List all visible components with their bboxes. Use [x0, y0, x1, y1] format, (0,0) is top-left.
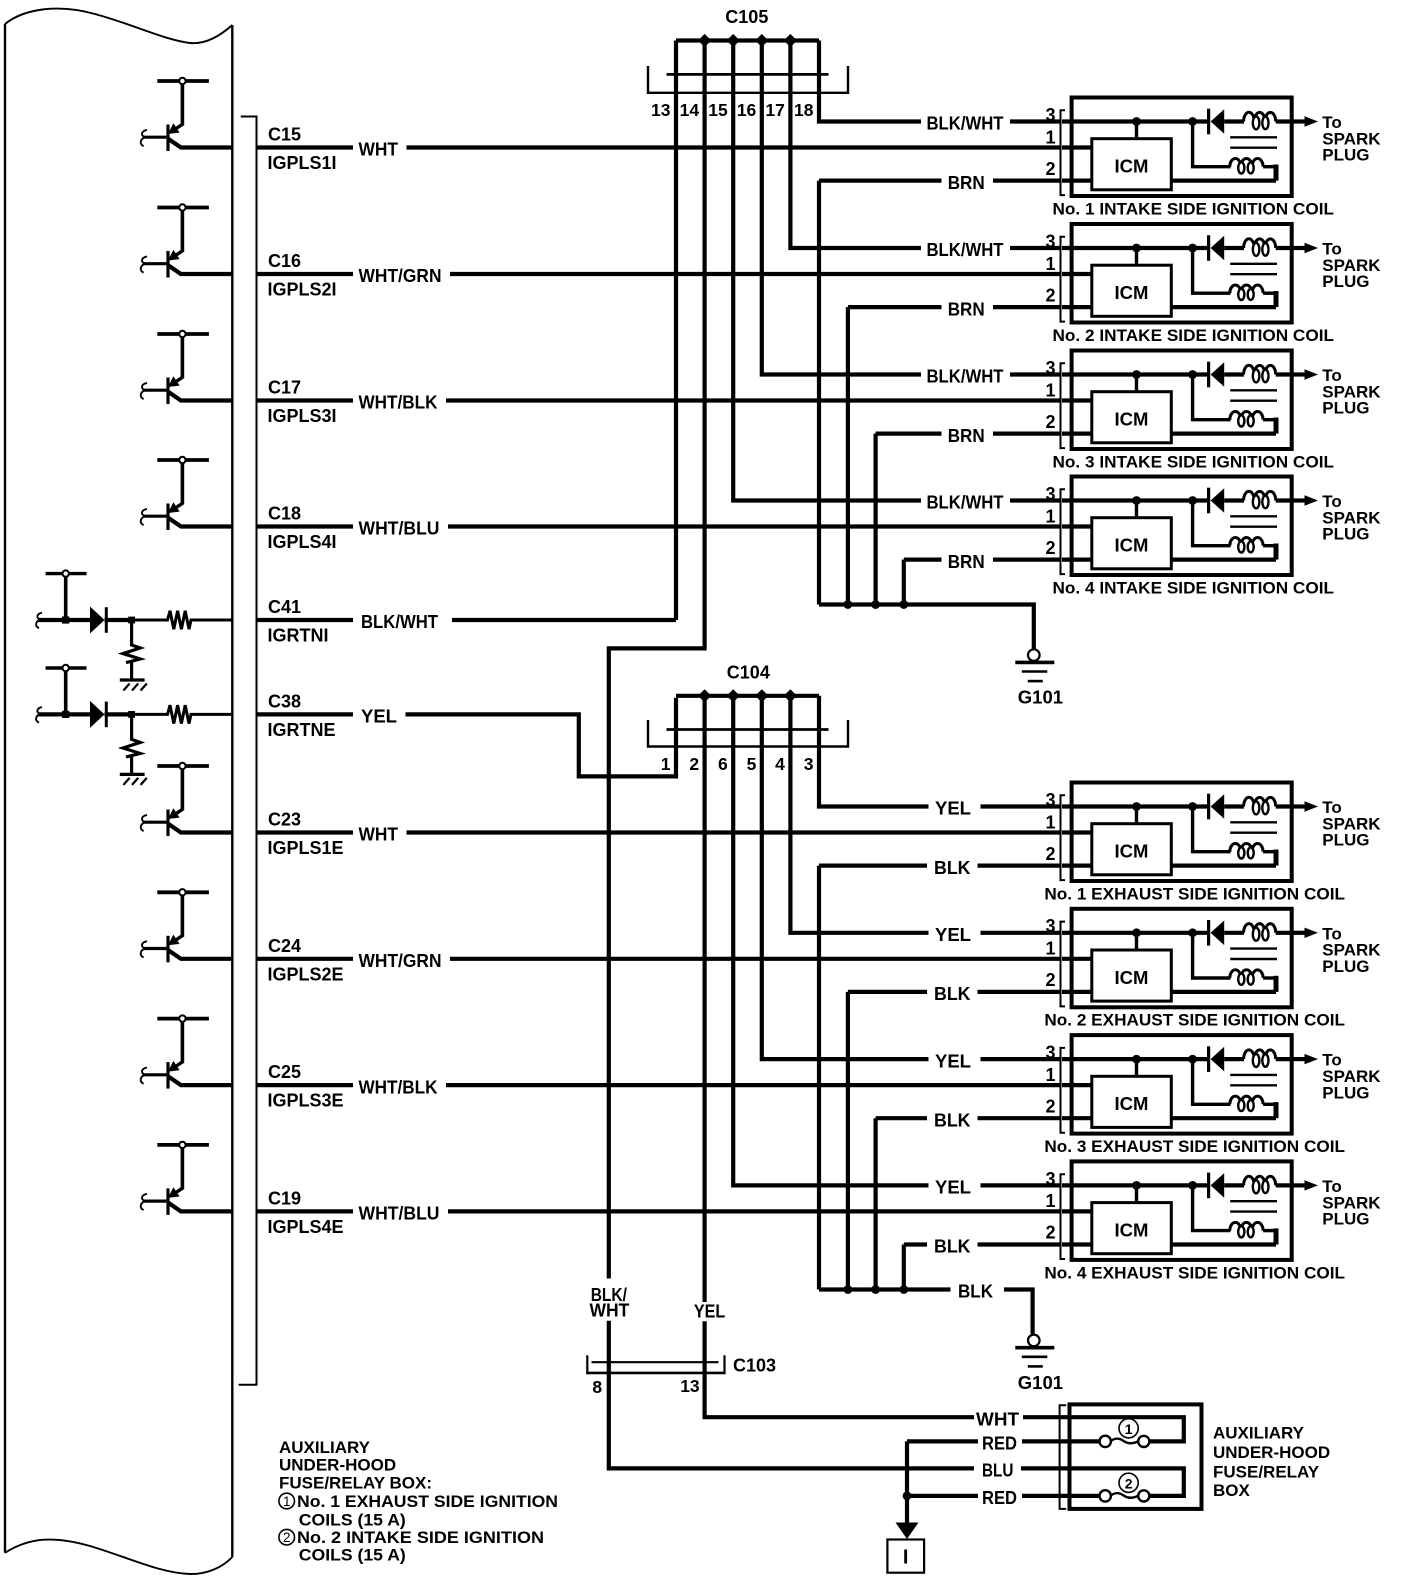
svg-text:ICM: ICM: [1115, 841, 1149, 862]
ignition coil block U7 (No. 3 EXHAUST side): [1061, 1035, 1319, 1134]
diode-resistor return network D1/R1/R2 (IGRTNI): [36, 570, 232, 690]
ECM connector face bracket: [239, 117, 257, 1385]
wire BLK No.3 exhaust coil pin 2: [876, 1116, 927, 1120]
svg-text:4: 4: [775, 754, 785, 774]
wire BLK No.1 exhaust coil pin 2: [819, 863, 927, 867]
wire C19 WHT/BLU segment from ECM: [258, 1209, 354, 1213]
svg-text:YEL: YEL: [935, 1051, 971, 1071]
svg-text:BLU: BLU: [982, 1461, 1013, 1481]
svg-text:WHT/BLK: WHT/BLK: [359, 393, 438, 413]
svg-text:5: 5: [747, 754, 757, 774]
wire C25 WHT/BLK run to No.3 exhaust coil pin 1: [446, 1083, 1061, 1087]
label To SPARK PLUG of U5: [1322, 798, 1381, 850]
svg-text:PLUG: PLUG: [1322, 272, 1369, 291]
svg-text:IGPLS1I: IGPLS1I: [268, 153, 337, 173]
svg-text:No. 1 EXHAUST SIDE IGNITION CO: No. 1 EXHAUST SIDE IGNITION COIL: [1044, 884, 1345, 903]
svg-text:No. 1 INTAKE SIDE IGNITION COI: No. 1 INTAKE SIDE IGNITION COIL: [1053, 199, 1335, 218]
svg-text:C104: C104: [727, 662, 770, 682]
wire C104 pin 4 to No.2 exhaust coil pin 3 (YEL): [790, 696, 928, 933]
svg-text:AUXILIARY: AUXILIARY: [1213, 1423, 1305, 1442]
svg-text:PLUG: PLUG: [1322, 957, 1369, 976]
svg-text:PLUG: PLUG: [1322, 831, 1369, 850]
wire C105 pin 16 to No.3 intake coil pin 3 (BLK/WHT): [762, 41, 921, 375]
svg-text:C19: C19: [268, 1189, 301, 1209]
pin numbers 3/1/2 of U3: [1045, 358, 1055, 432]
svg-text:IGPLS2E: IGPLS2E: [268, 964, 344, 984]
svg-text:8: 8: [592, 1377, 602, 1397]
svg-text:IGPLS3I: IGPLS3I: [268, 406, 337, 426]
svg-text:1: 1: [1045, 380, 1055, 400]
svg-text:C24: C24: [268, 936, 301, 956]
wire BRN No.4 intake coil pin 2: [904, 557, 942, 561]
svg-text:16: 16: [737, 100, 757, 120]
svg-text:2: 2: [1045, 285, 1055, 305]
svg-text:3: 3: [1045, 231, 1055, 251]
wire C15 WHT run to No.1 intake coil pin 1: [407, 145, 1061, 149]
junction dots on intake ground bus: [844, 600, 853, 609]
svg-text:WHT/BLU: WHT/BLU: [359, 519, 440, 539]
svg-text:3: 3: [1045, 484, 1055, 504]
svg-text:ICM: ICM: [1115, 156, 1149, 177]
svg-text:3: 3: [804, 754, 814, 774]
svg-text:C41: C41: [268, 597, 301, 617]
ignition coil block U1 (No. 1 INTAKE side): [1061, 98, 1319, 197]
pin numbers 3/1/2 of U1: [1045, 105, 1055, 179]
svg-text:1: 1: [1045, 939, 1055, 959]
svg-text:2: 2: [1045, 1223, 1055, 1243]
wire C16 WHT/GRN run to No.2 intake coil pin 1: [450, 272, 1061, 276]
transistor Q7 (IGPLS3E driver) (ECM output driver): [141, 1015, 233, 1088]
legend AUXILIARY UNDER-HOOD FUSE/RELAY BOX key: [279, 1438, 432, 1493]
svg-text:COILS (15 A): COILS (15 A): [299, 1511, 406, 1530]
svg-text:BLK/WHT: BLK/WHT: [927, 493, 1004, 513]
svg-text:1: 1: [1045, 1065, 1055, 1085]
svg-text:No. 3 INTAKE SIDE IGNITION COI: No. 3 INTAKE SIDE IGNITION COIL: [1053, 452, 1335, 471]
svg-text:C15: C15: [268, 125, 301, 145]
svg-text:WHT/BLU: WHT/BLU: [359, 1204, 440, 1224]
svg-text:IGPLS2I: IGPLS2I: [268, 280, 337, 300]
svg-text:C23: C23: [268, 810, 301, 830]
svg-text:PLUG: PLUG: [1322, 1210, 1369, 1229]
transistor Q8 (IGPLS4E driver) (ECM output driver): [141, 1142, 233, 1215]
pin numbers 3/1/2 of U4: [1045, 484, 1055, 558]
ignition coil block U2 (No. 2 INTAKE side): [1061, 224, 1319, 323]
wire C104 pin 6 to No.4 exhaust coil pin 3 (YEL): [733, 696, 928, 1186]
ignition coil block U3 (No. 3 INTAKE side): [1061, 351, 1319, 450]
svg-text:ICM: ICM: [1115, 1219, 1149, 1240]
transistor Q1 (IGPLS1I driver) (ECM output driver): [141, 78, 233, 151]
transistor Q3 (IGPLS3I driver) (ECM output driver): [141, 331, 233, 404]
svg-text:1: 1: [1045, 506, 1055, 526]
wire C105 pin 18 to No.1 intake coil pin 3 (BLK/WHT): [819, 41, 921, 122]
wire C105 pin 14 down-left jog to BLK/WHT drop: [609, 41, 705, 1279]
wire BLK drop of No.1 exhaust coil: [817, 866, 821, 1290]
svg-text:BRN: BRN: [948, 299, 985, 319]
svg-text:G101: G101: [1018, 687, 1063, 708]
wire C105 pin 17 to No.2 intake coil pin 3 (BLK/WHT): [790, 41, 921, 249]
intake ground bus to G101: [819, 605, 1034, 649]
exhaust ground bus to G101: [819, 1287, 951, 1291]
arrow to connector I: [896, 1523, 919, 1540]
svg-text:BLK: BLK: [934, 1110, 971, 1130]
svg-text:BRN: BRN: [948, 552, 985, 572]
svg-text:2: 2: [1125, 1476, 1133, 1492]
wire C23 WHT run to No.1 exhaust coil pin 1: [407, 830, 1061, 834]
svg-text:No. 4 INTAKE SIDE IGNITION COI: No. 4 INTAKE SIDE IGNITION COIL: [1053, 578, 1335, 597]
wire C17 WHT/BLK segment from ECM: [258, 398, 354, 402]
svg-text:15: 15: [708, 100, 728, 120]
svg-text:PLUG: PLUG: [1322, 146, 1369, 165]
svg-text:BLK: BLK: [934, 984, 971, 1004]
wire RED fuse 2 output: [1022, 1494, 1060, 1498]
svg-text:WHT/BLK: WHT/BLK: [359, 1077, 438, 1097]
label To SPARK PLUG of U3: [1322, 366, 1381, 418]
svg-text:2: 2: [283, 1530, 291, 1545]
svg-text:FUSE/RELAY BOX:: FUSE/RELAY BOX:: [279, 1474, 432, 1493]
label To SPARK PLUG of U8: [1322, 1177, 1381, 1229]
junction dot RED wires: [903, 1492, 912, 1501]
svg-text:1: 1: [1045, 127, 1055, 147]
wire BLK No.4 exhaust coil pin 2: [904, 1242, 927, 1246]
svg-text:IGRTNE: IGRTNE: [268, 720, 336, 740]
svg-text:WHT: WHT: [590, 1301, 630, 1321]
wire BRN No.3 intake coil pin 2: [876, 432, 942, 436]
pin numbers of C105: [651, 100, 814, 120]
svg-text:No. 2 EXHAUST SIDE IGNITION CO: No. 2 EXHAUST SIDE IGNITION COIL: [1044, 1011, 1345, 1030]
pin numbers of C104: [661, 754, 814, 774]
ignition coil block U5 (No. 1 EXHAUST side): [1061, 783, 1319, 882]
svg-text:C105: C105: [725, 7, 768, 27]
svg-text:BLK: BLK: [934, 1237, 971, 1257]
svg-text:No. 2 INTAKE SIDE IGNITION COI: No. 2 INTAKE SIDE IGNITION COIL: [1053, 326, 1335, 345]
svg-text:YEL: YEL: [935, 1178, 971, 1198]
value label BLK/WHT on C105 pin14 drop: [590, 1285, 630, 1321]
svg-text:13: 13: [680, 1376, 700, 1396]
svg-text:BRN: BRN: [948, 173, 985, 193]
ground G101: [1015, 649, 1054, 681]
wire C104 pin 3 to No.1 exhaust coil pin 3 (YEL): [819, 696, 929, 807]
svg-text:BLK/WHT: BLK/WHT: [927, 367, 1004, 387]
wire C23 WHT segment from ECM: [258, 830, 354, 834]
label To SPARK PLUG of U1: [1322, 113, 1381, 165]
svg-text:YEL: YEL: [361, 707, 397, 727]
svg-text:14: 14: [680, 100, 700, 120]
svg-text:AUXILIARY: AUXILIARY: [279, 1438, 371, 1457]
label AUXILIARY UNDER-HOOD FUSE/RELAY BOX (right): [1213, 1423, 1330, 1500]
label To SPARK PLUG of U6: [1322, 924, 1381, 976]
ignition coil block U4 (No. 4 INTAKE side): [1061, 477, 1319, 576]
wire RED fuse 1 output: [1022, 1439, 1060, 1443]
svg-text:17: 17: [765, 100, 784, 120]
svg-text:PLUG: PLUG: [1322, 525, 1369, 544]
pin numbers 3/1/2 of U2: [1045, 231, 1055, 305]
connector C105: [648, 34, 848, 93]
transistor Q5 (IGPLS1E driver) (ECM output driver): [141, 763, 233, 836]
wire BLK/WHT drop below label to BLU row: [609, 1321, 974, 1469]
connector C103: [586, 1355, 725, 1374]
svg-text:18: 18: [794, 100, 814, 120]
svg-text:ICM: ICM: [1115, 409, 1149, 430]
svg-text:I: I: [903, 1547, 909, 1569]
svg-text:ICM: ICM: [1115, 282, 1149, 303]
svg-text:2: 2: [1045, 1096, 1055, 1116]
circled 2 fuse number: [1119, 1473, 1138, 1492]
wire C24 WHT/GRN segment from ECM: [258, 957, 354, 961]
svg-text:ICM: ICM: [1115, 967, 1149, 988]
svg-text:YEL: YEL: [935, 925, 971, 945]
svg-text:C16: C16: [268, 251, 301, 271]
svg-text:1: 1: [1045, 812, 1055, 832]
svg-text:2: 2: [689, 754, 699, 774]
svg-text:2: 2: [1045, 159, 1055, 179]
svg-text:1: 1: [283, 1494, 291, 1509]
svg-text:YEL: YEL: [694, 1302, 725, 1322]
svg-text:IGPLS1E: IGPLS1E: [268, 838, 344, 858]
wire C24 WHT/GRN run to No.2 exhaust coil pin 1: [450, 957, 1061, 961]
wire C19 WHT/BLU run to No.4 exhaust coil pin 1: [448, 1209, 1061, 1213]
connector C104: [648, 689, 848, 746]
svg-text:PLUG: PLUG: [1322, 1083, 1369, 1102]
ground G101: [1015, 1335, 1054, 1367]
auxiliary under-hood fuse/relay box: [1060, 1404, 1202, 1509]
circled 1 fuse number: [1119, 1419, 1138, 1438]
pin numbers 3/1/2 of U6: [1045, 916, 1055, 990]
wire C38 YEL segment from ECM: [258, 712, 354, 716]
svg-text:ICM: ICM: [1115, 535, 1149, 556]
svg-text:C25: C25: [268, 1062, 301, 1082]
wire C104 pin 5 to No.3 exhaust coil pin 3 (YEL): [762, 696, 929, 1059]
ignition coil block U6 (No. 2 EXHAUST side): [1061, 909, 1319, 1008]
svg-text:IGRTNI: IGRTNI: [268, 626, 329, 646]
svg-text:BRN: BRN: [948, 426, 985, 446]
svg-text:6: 6: [718, 754, 728, 774]
transistor Q2 (IGPLS2I driver) (ECM output driver): [141, 204, 233, 277]
svg-text:WHT: WHT: [359, 825, 399, 845]
svg-text:RED: RED: [982, 1488, 1017, 1508]
svg-text:No. 1 EXHAUST SIDE IGNITION: No. 1 EXHAUST SIDE IGNITION: [297, 1492, 558, 1511]
svg-text:COILS (15 A): COILS (15 A): [299, 1546, 406, 1565]
svg-text:2: 2: [1045, 970, 1055, 990]
pin numbers 3/1/2 of U5: [1045, 790, 1055, 864]
wire C16 WHT/GRN segment from ECM: [258, 272, 354, 276]
svg-text:3: 3: [1045, 105, 1055, 125]
ignition coil block U8 (No. 4 EXHAUST side): [1061, 1161, 1319, 1260]
fuse 1 element (15 A): [1060, 1417, 1184, 1447]
wire C15 WHT segment from ECM: [258, 145, 354, 149]
svg-text:WHT/GRN: WHT/GRN: [359, 951, 442, 971]
legend circled 2 entry: [279, 1528, 544, 1565]
svg-text:13: 13: [651, 100, 671, 120]
wire BRN No.2 intake coil pin 2: [848, 305, 942, 309]
transistor Q6 (IGPLS2E driver) (ECM output driver): [141, 889, 233, 962]
svg-text:C103: C103: [733, 1356, 776, 1376]
wire BLK No.2 exhaust coil pin 2: [848, 990, 927, 994]
svg-text:BLK/WHT: BLK/WHT: [927, 240, 1004, 260]
ECM/PCM module box (torn-edge outline): [5, 9, 232, 1574]
wire BLK drop of No.3 exhaust coil: [873, 1118, 877, 1289]
wire BLK drop of No.4 exhaust coil: [902, 1245, 906, 1290]
wire RED vertical to connector I: [905, 1441, 909, 1523]
svg-text:C17: C17: [268, 378, 301, 398]
svg-text:No. 4 EXHAUST SIDE IGNITION CO: No. 4 EXHAUST SIDE IGNITION COIL: [1044, 1263, 1345, 1282]
svg-text:PLUG: PLUG: [1322, 399, 1369, 418]
svg-text:2: 2: [1045, 412, 1055, 432]
wire C38 YEL run, drops to C104 pin 1: [406, 698, 677, 777]
svg-text:C38: C38: [268, 692, 301, 712]
connector I box: [887, 1540, 924, 1573]
wire WHT from C103 pin 13 to fuse box: [705, 1321, 974, 1417]
wire C17 WHT/BLK run to No.3 intake coil pin 1: [446, 398, 1061, 402]
pin numbers 3/1/2 of U7: [1045, 1043, 1055, 1117]
svg-text:BLK: BLK: [934, 858, 971, 878]
label To SPARK PLUG of U2: [1322, 240, 1381, 292]
wire C41 BLK/WHT run to C105 pin 13: [452, 618, 676, 622]
svg-text:IGPLS4E: IGPLS4E: [268, 1217, 344, 1237]
label To SPARK PLUG of U4: [1322, 492, 1381, 544]
label To SPARK PLUG of U7: [1322, 1051, 1381, 1103]
wire C41 BLK/WHT segment from ECM: [258, 618, 354, 622]
svg-text:UNDER-HOOD: UNDER-HOOD: [1213, 1443, 1330, 1462]
svg-text:UNDER-HOOD: UNDER-HOOD: [279, 1456, 396, 1475]
svg-text:1: 1: [1125, 1421, 1133, 1437]
wire C18 WHT/BLU run to No.4 intake coil pin 1: [448, 524, 1061, 528]
pin numbers 3/1/2 of U8: [1045, 1169, 1055, 1243]
svg-text:YEL: YEL: [935, 799, 971, 819]
svg-text:2: 2: [1045, 844, 1055, 864]
svg-text:BOX: BOX: [1213, 1481, 1251, 1500]
svg-text:WHT/GRN: WHT/GRN: [359, 266, 442, 286]
svg-text:2: 2: [1045, 538, 1055, 558]
wire C25 WHT/BLK segment from ECM: [258, 1083, 354, 1087]
svg-text:G101: G101: [1018, 1372, 1063, 1393]
wire C105 pin 13 drop to C41 row: [674, 41, 678, 621]
wire BRN No.1 intake coil pin 2 with drop to ground bus: [819, 179, 942, 183]
svg-text:BLK/WHT: BLK/WHT: [927, 114, 1004, 134]
svg-text:No. 3 EXHAUST SIDE IGNITION CO: No. 3 EXHAUST SIDE IGNITION COIL: [1044, 1137, 1345, 1156]
svg-text:1: 1: [661, 754, 671, 774]
svg-text:ICM: ICM: [1115, 1093, 1149, 1114]
wire C104 pin 2 long drop to C103 pin 13: [702, 696, 706, 1302]
svg-text:C18: C18: [268, 504, 301, 524]
svg-text:IGPLS3E: IGPLS3E: [268, 1091, 344, 1111]
svg-text:3: 3: [1045, 358, 1055, 378]
svg-text:1: 1: [1045, 1191, 1055, 1211]
wire C18 WHT/BLU segment from ECM: [258, 524, 354, 528]
svg-text:RED: RED: [982, 1434, 1017, 1454]
legend circled 1 entry: [279, 1492, 558, 1530]
svg-text:No. 2 INTAKE SIDE IGNITION: No. 2 INTAKE SIDE IGNITION: [297, 1528, 544, 1547]
svg-text:WHT: WHT: [976, 1409, 1019, 1429]
svg-text:IGPLS4I: IGPLS4I: [268, 532, 337, 552]
svg-text:WHT: WHT: [359, 140, 399, 160]
svg-text:BLK/WHT: BLK/WHT: [361, 612, 438, 632]
svg-text:1: 1: [1045, 254, 1055, 274]
wire BLK drop of No.2 exhaust coil: [846, 992, 850, 1290]
fuse 2 element (15 A): [1060, 1468, 1184, 1501]
diode-resistor return network D2/R3/R4 (IGRTNE): [36, 665, 232, 785]
svg-text:FUSE/RELAY: FUSE/RELAY: [1213, 1463, 1320, 1482]
wire C105 pin 15 to No.4 intake coil pin 3 (BLK/WHT): [733, 41, 921, 501]
junction dots on exhaust ground bus: [844, 1285, 853, 1294]
svg-text:BLK: BLK: [958, 1282, 993, 1302]
transistor Q4 (IGPLS4I driver) (ECM output driver): [141, 457, 233, 530]
